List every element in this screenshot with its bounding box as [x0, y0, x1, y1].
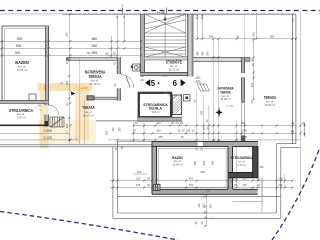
svg-text:12,95 m²: 12,95 m² — [17, 68, 28, 72]
svg-text:205: 205 — [252, 32, 256, 37]
upper-right dim numbers — [195, 14, 295, 66]
svg-text:260: 260 — [156, 128, 161, 132]
extension line x108 — [107, 54, 109, 58]
svg-text:480: 480 — [201, 51, 205, 56]
long vertical extension lines — [80, 39, 237, 188]
dimension chain rows top-left — [0, 14, 142, 145]
svg-text:32,00 m²: 32,00 m² — [265, 103, 276, 107]
svg-text:+0,85: +0,85 — [161, 75, 168, 78]
svg-text:20,: 20, — [60, 81, 64, 85]
svg-text:20,: 20, — [65, 102, 69, 106]
svg-text:380: 380 — [193, 160, 197, 165]
svg-text:485: 485 — [195, 51, 199, 56]
svg-text:30, 20, 245, 20: 30, 20, 245, 20 — [177, 128, 195, 132]
lower platform outline — [113, 141, 281, 218]
svg-text:5: 5 — [151, 79, 156, 88]
wall band y57-60 right of stairs — [193, 57, 250, 61]
svg-text:150: 150 — [209, 204, 213, 209]
shower square — [131, 64, 140, 71]
svg-text:300: 300 — [270, 34, 275, 38]
svg-text:+0,85: +0,85 — [81, 86, 88, 90]
label separator lines — [194, 79, 201, 83]
bottom vertical dim — [205, 194, 212, 226]
svg-text:ker. pl.: ker. pl. — [170, 64, 178, 68]
svg-text:126: 126 — [259, 165, 264, 169]
svg-text:BAZEN: BAZEN — [172, 155, 183, 160]
sub-room pavement corner — [233, 178, 263, 202]
svg-text:18,38 m²: 18,38 m² — [220, 97, 231, 101]
svg-text:30,: 30, — [194, 220, 198, 224]
svg-text:ker. pl.: ker. pl. — [222, 94, 230, 98]
svg-text:STROJARNICA: STROJARNICA — [231, 155, 254, 160]
svg-text:205: 205 — [64, 32, 68, 37]
svg-text:300: 300 — [15, 51, 21, 55]
svg-text:438: 438 — [200, 170, 205, 174]
svg-text:20,: 20, — [159, 187, 162, 191]
svg-text:2,76 m²: 2,76 m² — [16, 116, 25, 120]
svg-text:TERASA: TERASA — [264, 95, 277, 100]
svg-text:430: 430 — [189, 176, 194, 180]
svg-text:3,08 m²: 3,08 m² — [151, 111, 159, 114]
bottom rotated dims 100/115/150/30/30 — [194, 203, 213, 225]
svg-text:12,31 m²: 12,31 m² — [168, 67, 179, 71]
rotated wall dims 20/205/430 — [46, 6, 126, 56]
east wall rotated dims — [250, 57, 254, 103]
svg-text:TERASA: TERASA — [82, 105, 95, 110]
house west wall with door — [117, 57, 134, 101]
svg-text:430: 430 — [189, 183, 194, 187]
svg-text:30,: 30, — [133, 128, 137, 132]
svg-text:860: 860 — [92, 37, 98, 41]
svg-text:100: 100 — [197, 203, 201, 208]
mid dimension rows — [0, 126, 301, 142]
upper-right terrace dims — [197, 14, 296, 39]
exterior steps hatch NE — [197, 84, 210, 91]
STROJARNICA label — [9, 108, 33, 120]
svg-text:20,: 20, — [135, 121, 139, 125]
lower terrace top edge lines — [0, 141, 301, 147]
svg-text:ker. pl.: ker. pl. — [91, 79, 99, 83]
svg-text:12,90 m²: 12,90 m² — [172, 163, 182, 167]
svg-text:20,: 20, — [208, 189, 211, 193]
svg-text:265: 265 — [158, 135, 163, 139]
section markers — [145, 75, 185, 88]
staircase — [145, 14, 186, 57]
site boundary dashed top — [0, 10, 320, 12]
svg-text:95.: 95. — [181, 135, 185, 139]
svg-text:1.095: 1.095 — [43, 129, 52, 133]
door labels 110/230 — [140, 76, 200, 83]
svg-text:125: 125 — [278, 183, 283, 187]
NATKRIVENA TERASA label (center-left) — [85, 70, 106, 87]
column — [184, 95, 190, 101]
wall above shower / stair left wall — [141, 14, 145, 76]
STROJARNICA DIZALA room — [139, 93, 171, 117]
svg-text:TERASA: TERASA — [89, 74, 102, 79]
exterior stairs hatch block — [50, 117, 64, 127]
svg-text:230: 230 — [250, 82, 254, 87]
svg-text:120: 120 — [278, 176, 283, 180]
svg-text:845: 845 — [242, 128, 247, 132]
east wall end caps — [241, 136, 246, 142]
svg-text:165: 165 — [105, 130, 109, 135]
svg-text:BAZEN: BAZEN — [15, 60, 29, 65]
terrace edge wall with pillar — [87, 97, 117, 99]
svg-text:130: 130 — [118, 127, 122, 132]
BAZEN label — [15, 60, 29, 72]
terrace edge ext line — [244, 14, 246, 57]
pillar on terrace — [87, 96, 94, 100]
svg-text:380: 380 — [211, 160, 215, 165]
wall dim slot — [197, 142, 203, 146]
svg-text:215: 215 — [136, 183, 141, 187]
svg-text:550: 550 — [92, 44, 98, 48]
STROJARNICA lower room — [228, 146, 258, 177]
svg-text:160: 160 — [86, 52, 91, 55]
svg-text:308: 308 — [209, 34, 214, 38]
svg-text:250: 250 — [65, 123, 69, 128]
svg-text:220: 220 — [65, 80, 69, 85]
svg-text:545: 545 — [206, 51, 210, 56]
BAZEN lower label — [172, 155, 183, 167]
svg-text:300: 300 — [241, 121, 246, 125]
lower dim numbers rows — [136, 165, 283, 187]
svg-text:2,70 m²: 2,70 m² — [238, 164, 247, 167]
lower pool walls — [152, 141, 258, 194]
right vertical dim with 205/220 — [253, 39, 255, 100]
svg-text:306: 306 — [16, 44, 22, 48]
heavy bottom line of left block — [0, 124, 49, 126]
svg-text:ker. pl.: ker. pl. — [17, 112, 25, 116]
offset line right — [300, 11, 302, 203]
svg-text:20,: 20, — [251, 62, 255, 66]
leader line — [34, 107, 38, 110]
svg-text:20,: 20, — [236, 34, 240, 38]
svg-text:1.125: 1.125 — [43, 136, 52, 140]
svg-text:302: 302 — [200, 14, 204, 19]
svg-text:12,19 m²: 12,19 m² — [90, 82, 101, 86]
boundary dashed bottom-left — [0, 212, 178, 240]
TERASA label right — [264, 95, 277, 107]
lower dim rows — [110, 174, 292, 188]
svg-text:ker. pl.: ker. pl. — [85, 110, 93, 114]
svg-text:430: 430 — [202, 160, 206, 165]
svg-text:390: 390 — [17, 37, 23, 41]
wall horizontal y72.5 — [141, 72, 193, 75]
svg-text:120: 120 — [111, 127, 115, 132]
rotated pool dims 380/430/380 — [193, 160, 214, 165]
STUBISTE label — [166, 60, 182, 72]
svg-text:312: 312 — [195, 14, 199, 19]
house east wall — [241, 57, 244, 145]
upper pool BAZEN outline — [2, 26, 49, 103]
svg-text:35, 20, 20: 35, 20, 20 — [171, 121, 183, 125]
elevation cursor — [71, 91, 76, 95]
svg-text:ker. pl.: ker. pl. — [266, 99, 274, 103]
parapet wall y57.6 — [66, 57, 117, 60]
svg-text:STUBIŠTE: STUBIŠTE — [166, 60, 182, 65]
stair room right wall — [188, 14, 193, 77]
terrace right outline — [62, 14, 296, 143]
svg-text:30,: 30, — [200, 220, 204, 224]
yellow highlight path — [38, 83, 97, 148]
svg-text:210: 210 — [156, 121, 161, 125]
svg-text:240: 240 — [201, 110, 204, 115]
svg-text:218: 218 — [136, 176, 141, 180]
elevator shaft hatch — [172, 95, 181, 115]
svg-text:+0,85: +0,85 — [226, 104, 234, 108]
pool right wall — [46, 26, 49, 103]
boundary station ticks — [122, 8, 166, 14]
pool inner line — [158, 148, 226, 187]
pool wall dims 20/20 — [196, 147, 204, 150]
svg-text:TERASA: TERASA — [220, 89, 231, 94]
TERASA label left — [82, 105, 95, 117]
chain dimension numbers 390/306/300/860/550/565 — [15, 37, 98, 55]
svg-text:20,: 20, — [291, 17, 295, 21]
svg-text:90,07 m²: 90,07 m² — [83, 113, 94, 117]
svg-text:210: 210 — [137, 170, 142, 174]
boundary dashed right curve — [272, 150, 319, 240]
house south wall — [137, 117, 182, 121]
extension line x284.6 — [284, 174, 286, 188]
svg-text:120: 120 — [242, 183, 247, 187]
pool bottom wall — [0, 100, 49, 103]
NATKRIVENA TERASA label right — [218, 86, 234, 102]
rotated dims left column — [60, 60, 211, 150]
svg-text:6: 6 — [173, 79, 178, 88]
mid dim numbers rows — [133, 121, 305, 139]
stair bottom wall band — [145, 57, 188, 60]
door size labels 160/75 — [38, 105, 43, 112]
plot line — [0, 13, 296, 15]
north star — [218, 107, 220, 117]
STROJARNICA left room — [45, 103, 59, 121]
svg-text:430: 430 — [112, 51, 116, 56]
small dim arrows right — [303, 123, 305, 137]
svg-text:125: 125 — [242, 176, 247, 180]
skimmer box — [29, 94, 36, 100]
rotated dims 90/240/40 — [194, 99, 209, 122]
svg-text:STROJARNICA: STROJARNICA — [9, 108, 33, 113]
walkway edge line — [96, 120, 137, 122]
pool steps — [154, 184, 161, 190]
svg-text:565: 565 — [92, 51, 98, 55]
